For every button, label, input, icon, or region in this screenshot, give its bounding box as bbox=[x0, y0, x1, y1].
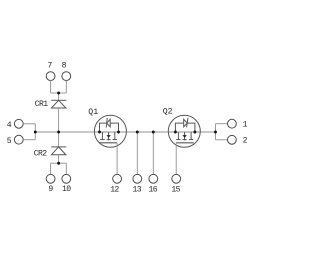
Q2 left contact bbox=[177, 132, 179, 140]
diode CR2 bbox=[51, 147, 66, 155]
wire: bus to pin 13 bbox=[136, 132, 138, 175]
wire: CR1 anode to bus bbox=[58, 108, 60, 132]
Q2 right contact bbox=[190, 132, 192, 140]
wire: pin 8 stem bbox=[65, 80, 67, 93]
wire: Q2 body-diode bracket right bbox=[187, 123, 195, 132]
node: bus/CR junction bbox=[57, 131, 60, 134]
svg-text:10: 10 bbox=[62, 185, 71, 194]
svg-text:9: 9 bbox=[48, 185, 53, 194]
svg-text:5: 5 bbox=[7, 137, 12, 146]
Q1 body diode triangle (points left) bbox=[107, 119, 111, 127]
wire: pins 7-8 join bbox=[51, 92, 67, 94]
svg-text:8: 8 bbox=[62, 62, 67, 71]
Q1 right contact bbox=[114, 132, 116, 140]
wire: pins 4-5 tee bbox=[34, 124, 36, 140]
Q2 body diode bar bbox=[187, 118, 188, 128]
node: Q2 right dot bbox=[193, 131, 196, 134]
wire: main horizontal bus bbox=[35, 131, 215, 133]
pin 8 bbox=[62, 72, 71, 81]
node: bus tap for pin 16 bbox=[152, 131, 155, 134]
pin 5 bbox=[14, 135, 23, 144]
wire: junction to CR1 cathode bbox=[58, 93, 60, 100]
pin 15 bbox=[172, 174, 181, 183]
wire: pin 7 stem bbox=[50, 80, 52, 93]
svg-text:CR2: CR2 bbox=[34, 149, 48, 158]
wire: bus to CR2 cathode bbox=[58, 132, 60, 147]
wire: pin 4 stub bbox=[23, 123, 35, 125]
svg-text:2: 2 bbox=[243, 137, 248, 146]
Q2 body diode triangle (points right) bbox=[184, 119, 188, 127]
svg-text:13: 13 bbox=[132, 185, 141, 194]
pin 2 bbox=[228, 135, 237, 144]
wire: CR2 anode down bbox=[58, 155, 60, 163]
diode CR1 bbox=[51, 100, 66, 108]
pin 10 bbox=[62, 174, 71, 183]
pin 13 bbox=[133, 174, 142, 183]
Q2 middle contact with arrow bbox=[184, 132, 186, 140]
Q1 left contact bbox=[101, 132, 103, 140]
wire: pin 9 stem bbox=[50, 163, 52, 174]
node: junction above CR1 bbox=[57, 92, 60, 95]
wire: pins 9-10 join bbox=[51, 162, 67, 164]
pin 4 bbox=[14, 119, 23, 128]
wire: Q1 body-diode bracket left bbox=[100, 123, 107, 132]
svg-text:15: 15 bbox=[171, 185, 180, 194]
node: Q1 left dot bbox=[98, 131, 101, 134]
node: bus tap for pin 13 bbox=[136, 131, 139, 134]
svg-text:CR1: CR1 bbox=[35, 100, 49, 109]
wire: pin 10 stem bbox=[65, 163, 67, 174]
node: Q1 right dot bbox=[117, 131, 120, 134]
wire: Q1 gate to pin 12 bbox=[116, 143, 118, 175]
Q2 body circle bbox=[168, 115, 200, 147]
wire: pin 5 stub bbox=[23, 139, 35, 141]
svg-text:Q1: Q1 bbox=[88, 108, 98, 117]
transistor Q1 bbox=[94, 115, 126, 147]
pin 16 bbox=[149, 174, 158, 183]
wire: Q2 gate to pin 15 bbox=[175, 143, 177, 175]
node: junction below CR2 bbox=[57, 162, 60, 165]
node: Q2 left dot bbox=[174, 131, 177, 134]
Q2 gate line bbox=[176, 142, 194, 144]
wire: pins 1-2 tee bbox=[215, 124, 217, 140]
Q1 gate line bbox=[100, 142, 118, 144]
svg-text:1: 1 bbox=[243, 120, 248, 129]
svg-text:12: 12 bbox=[110, 185, 119, 194]
pin 1 bbox=[228, 119, 237, 128]
wire: Q2 body-diode bracket left bbox=[175, 123, 183, 132]
wire: pin 2 stub bbox=[216, 139, 228, 141]
svg-text:7: 7 bbox=[47, 62, 52, 71]
wire: Q1 body-diode bracket right bbox=[110, 123, 118, 132]
pin 9 bbox=[46, 174, 55, 183]
wire: bus to pin 16 bbox=[152, 132, 154, 175]
Q1 body circle bbox=[94, 115, 126, 147]
svg-text:4: 4 bbox=[7, 121, 12, 130]
svg-text:Q2: Q2 bbox=[163, 108, 173, 117]
pin 12 bbox=[113, 174, 122, 183]
node: 4/5 tee junction bbox=[34, 131, 37, 134]
Q1 body diode bar bbox=[105, 118, 108, 128]
wire: pin 1 stub bbox=[216, 123, 228, 125]
transistor Q2 bbox=[168, 115, 200, 147]
svg-text:16: 16 bbox=[148, 185, 157, 194]
Q1 middle contact with arrow bbox=[108, 132, 110, 140]
node: right tee junction bbox=[214, 131, 217, 134]
pin 7 bbox=[46, 72, 55, 81]
